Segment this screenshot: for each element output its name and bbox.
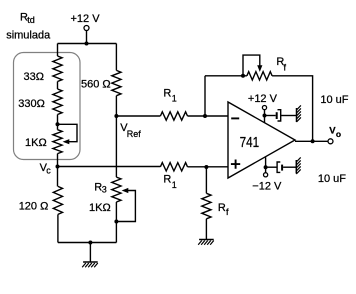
op-amp minus sign [231, 117, 239, 119]
ground (bypass upper) [296, 108, 298, 122]
wire Rf to output node [272, 76, 313, 142]
svg-text:R: R [163, 88, 171, 100]
RTD simulada box [14, 53, 81, 160]
junction feedback node [203, 114, 207, 118]
+12V terminal circle [84, 26, 89, 31]
wire 330 to pot [57, 115, 59, 130]
wire bypass lower to ground [283, 166, 296, 168]
node VRef label [120, 122, 141, 139]
wire Vc to R1 lower [58, 166, 161, 168]
capacitor 10uF lower plate [281, 165, 283, 171]
op-amp 741 triangle [228, 102, 295, 178]
resistor 33ohm [53, 56, 62, 82]
wire 120ohm to bottom rail [57, 214, 59, 242]
svg-text:1KΩ: 1KΩ [25, 137, 47, 149]
wire pot to Vc node [57, 154, 59, 167]
wire bypass upper to ground [281, 115, 297, 117]
svg-text:10 uF: 10 uF [320, 94, 348, 106]
node Vc label [40, 162, 52, 175]
junction bottom rail [88, 241, 92, 245]
wire +12V stub [86, 31, 88, 44]
junction +12V bypass [263, 114, 267, 118]
potentiometer 1Kohm (box) [53, 130, 62, 154]
wire ground stub [89, 243, 91, 263]
ground (Rf lower) [199, 239, 214, 241]
svg-text:c: c [46, 165, 51, 175]
wire to Rf lower [205, 167, 207, 193]
wiper loop R3 [116, 191, 135, 222]
ground (bottom rail) [83, 261, 98, 263]
capacitor 10uF lower bracket [277, 162, 280, 172]
resistor 120ohm [53, 186, 62, 214]
wiper arrow of box pot [63, 139, 70, 144]
label R1 lower [163, 174, 176, 190]
label Vo [329, 125, 341, 139]
resistor R1 lower [160, 163, 187, 171]
junction Rf wiper [241, 74, 245, 78]
wire feedback to Rf [205, 75, 247, 77]
svg-text:330Ω: 330Ω [18, 98, 45, 110]
wire top rail [58, 43, 117, 45]
label R3 [94, 181, 107, 194]
op-amp plus sign [231, 160, 240, 169]
wire to bypass cap lower [266, 166, 278, 168]
potentiometer R3 1Kohm [112, 177, 121, 202]
wire bottom rail [58, 242, 117, 244]
wiper loop of box pot [58, 124, 78, 141]
+12V pin terminal [262, 106, 266, 110]
wire between 33 and 330 [57, 82, 59, 90]
wire R1 lower to non-inverting input [188, 166, 228, 168]
wire R3 bottom [115, 202, 117, 243]
svg-text:+12 V: +12 V [71, 13, 101, 25]
wire +12V pin stub [264, 110, 266, 123]
wire Rf lower to ground [205, 219, 207, 240]
wire R1 upper to inverting input [188, 115, 228, 117]
wire Vc down to 120ohm [57, 167, 59, 187]
junction -12V bypass [264, 165, 268, 169]
svg-text:td: td [27, 15, 35, 25]
wire VRef down to R3 [115, 116, 117, 177]
wire to bypass cap upper [265, 115, 276, 117]
wire 560 branch top [115, 44, 117, 71]
svg-text:33Ω: 33Ω [24, 71, 44, 83]
junction output/feedback [311, 139, 315, 143]
label Rf feedback [276, 56, 286, 72]
resistor Rf lower [202, 193, 211, 219]
wire VRef to R1 upper [116, 115, 160, 117]
svg-text:560 Ω: 560 Ω [81, 79, 111, 91]
label Rf lower [218, 202, 229, 217]
svg-text:Ref: Ref [127, 129, 142, 139]
capacitor 10uF upper plate [276, 112, 278, 119]
resistor R1 upper [160, 112, 187, 120]
wire output [295, 140, 328, 142]
svg-text:1: 1 [172, 180, 177, 190]
svg-text:1KΩ: 1KΩ [89, 202, 111, 214]
svg-text:simulada: simulada [6, 29, 51, 41]
resistor 330ohm [53, 89, 62, 115]
svg-text:10 uF: 10 uF [318, 173, 346, 185]
wire feedback vertical left [204, 76, 206, 116]
label R1 upper [163, 88, 176, 104]
ground (bypass lower) [295, 160, 297, 174]
-12V pin terminal [264, 173, 268, 177]
wiper loop Rf [243, 55, 260, 76]
resistor 560ohm [112, 70, 121, 95]
junction top rail [85, 42, 89, 46]
svg-text:R: R [218, 202, 226, 214]
resistor Rf feedback [247, 72, 272, 80]
label Rtd simulada [6, 11, 51, 41]
svg-text:1: 1 [172, 93, 177, 103]
wire 560 to VRef [115, 96, 117, 116]
svg-text:+12 V: +12 V [248, 93, 278, 105]
junction R3 wiper bottom [114, 220, 118, 224]
junction Vc [56, 165, 60, 169]
wire into box [57, 44, 59, 57]
svg-text:R: R [163, 174, 171, 186]
wire -12V pin stub [265, 157, 267, 173]
svg-text:−12 V: −12 V [252, 181, 282, 193]
output terminal Vo [328, 139, 333, 144]
svg-text:741: 741 [240, 134, 260, 151]
capacitor 10uF upper bracket [278, 110, 281, 121]
junction VRef [114, 114, 118, 118]
svg-text:120 Ω: 120 Ω [19, 201, 49, 213]
wiper arrow R3 [122, 188, 129, 193]
junction Rf lower node [204, 165, 208, 169]
junction pot tap [56, 122, 60, 126]
svg-text:o: o [336, 129, 341, 139]
svg-text:3: 3 [102, 185, 107, 195]
wiper arrow Rf (down) [257, 65, 262, 72]
